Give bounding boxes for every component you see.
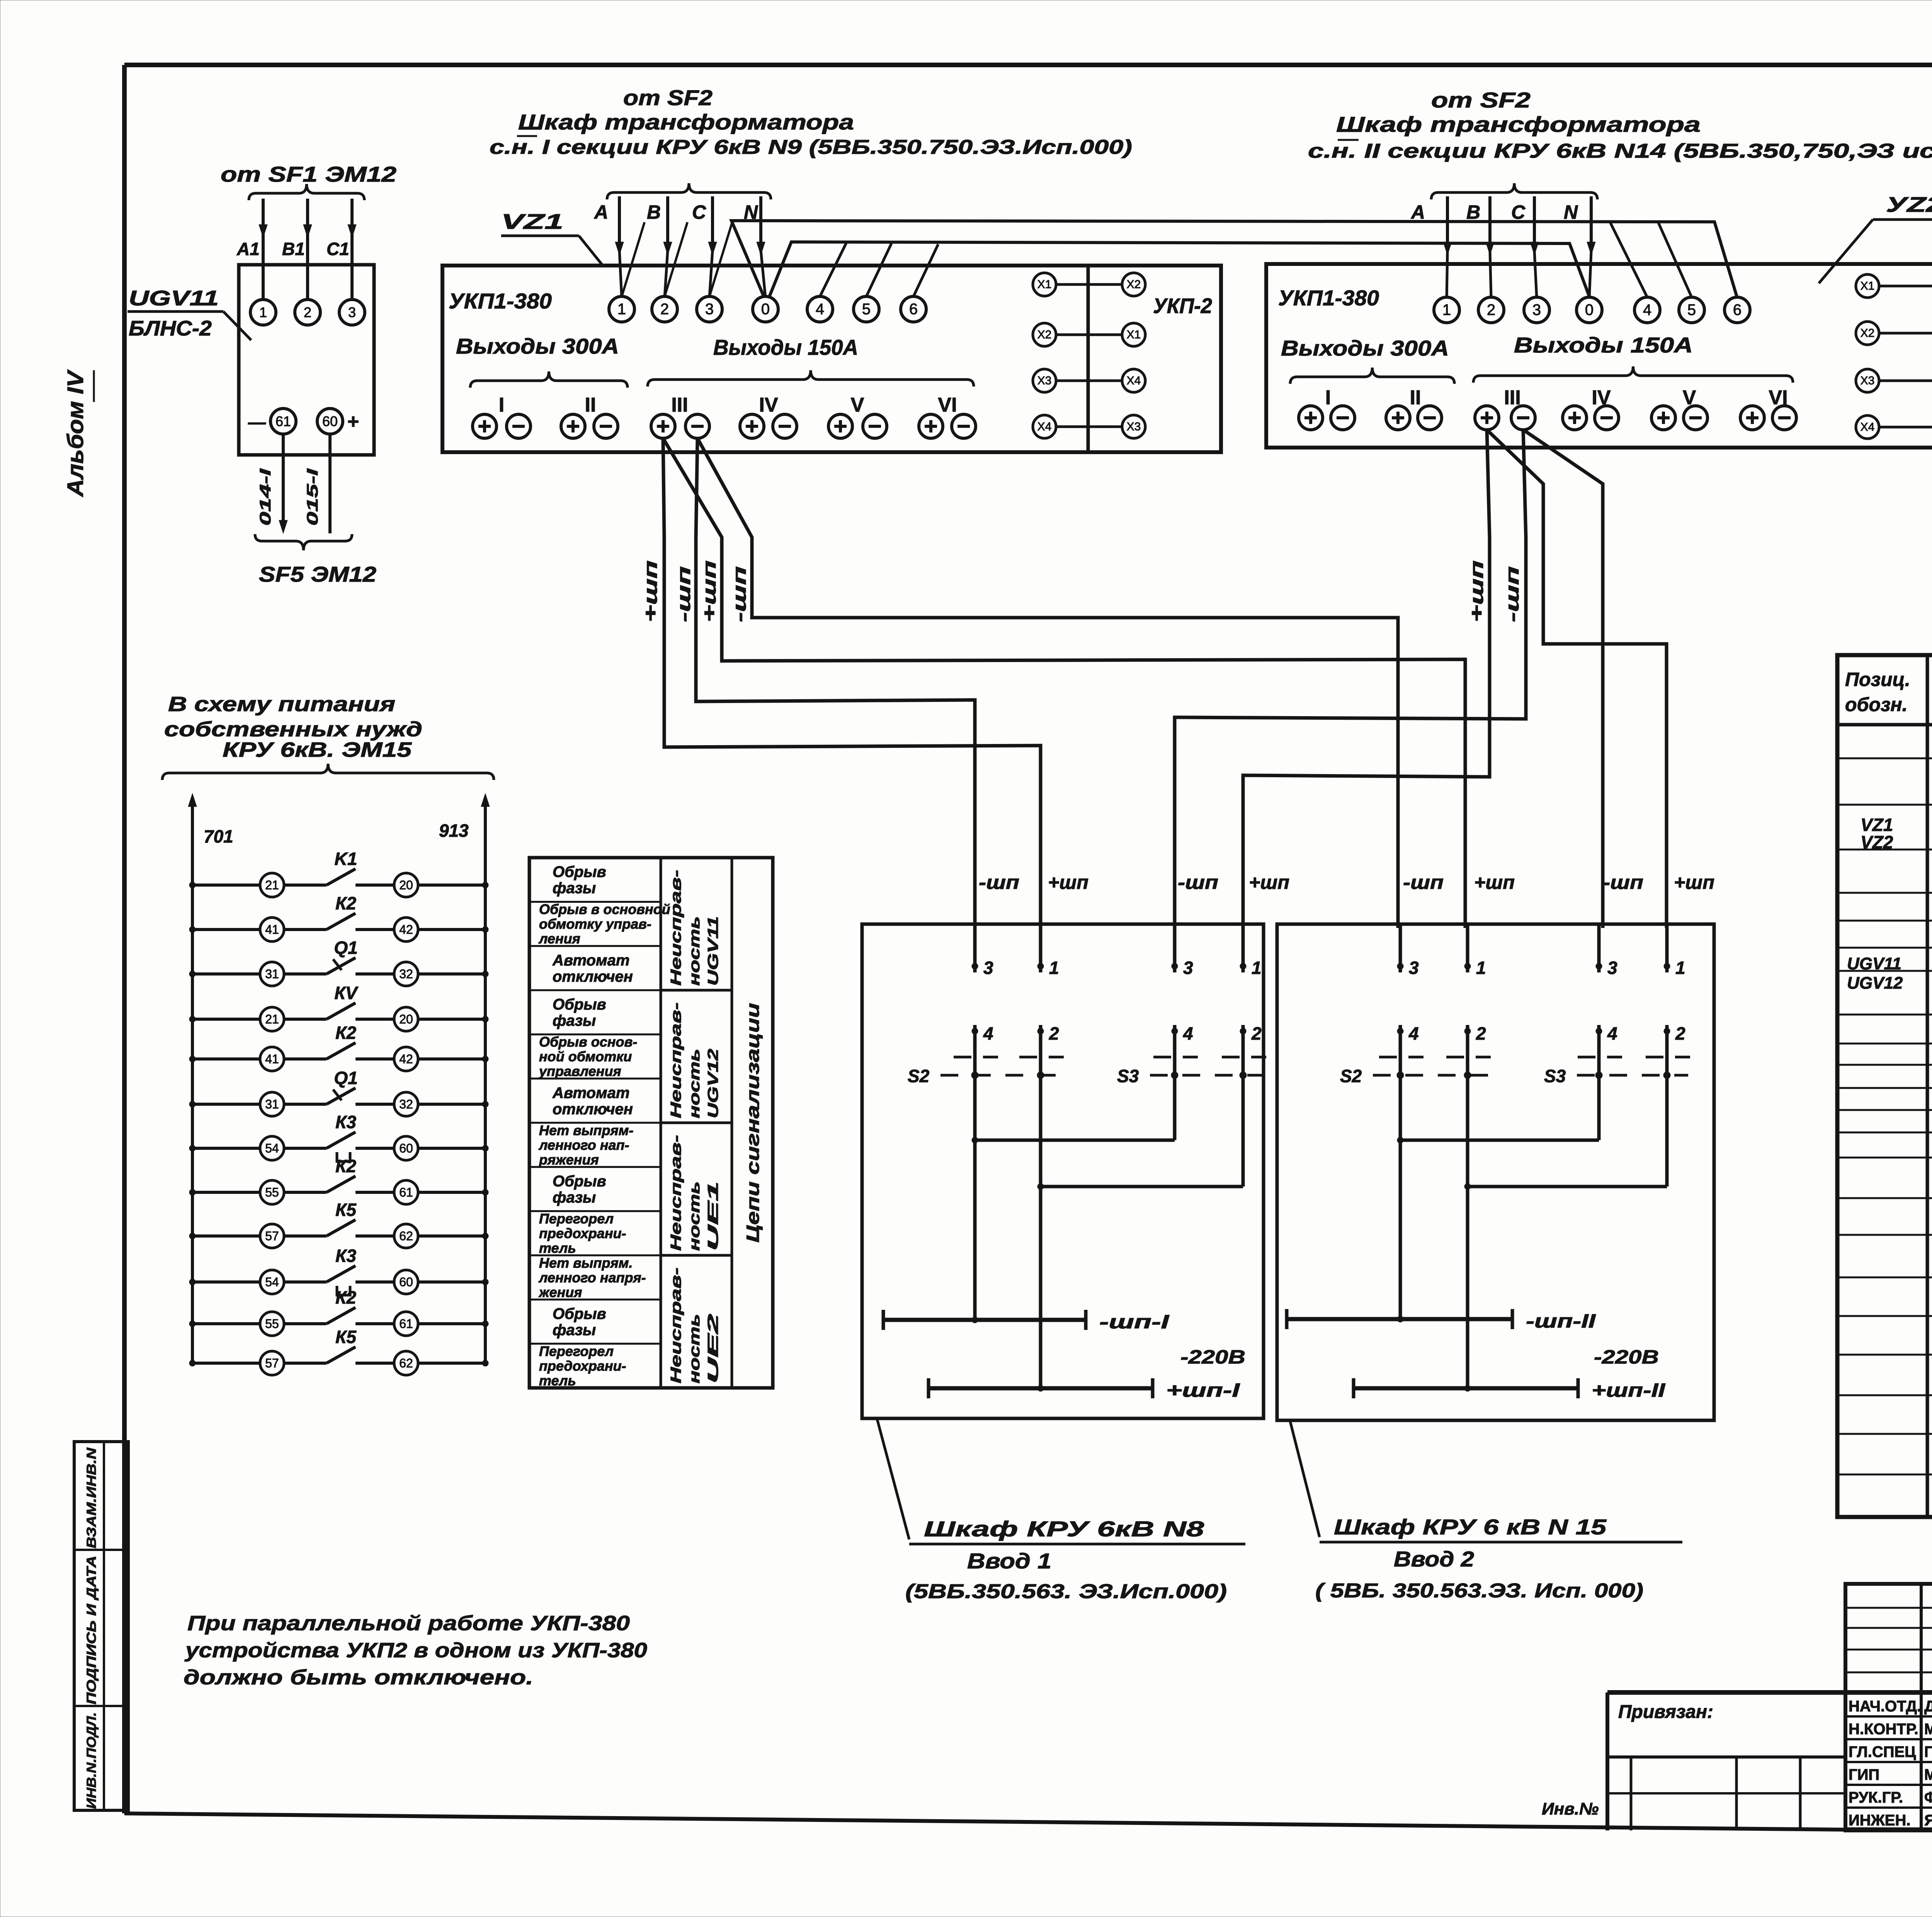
svg-text:4: 4	[1183, 1023, 1193, 1044]
svg-text:Выходы 300А: Выходы 300А	[1281, 336, 1449, 360]
svg-text:5: 5	[1687, 301, 1696, 318]
svg-text:I: I	[499, 394, 504, 416]
svg-text:Нет выпрям-: Нет выпрям-	[539, 1122, 633, 1138]
svg-text:-шп: -шп	[674, 566, 694, 622]
svg-text:61: 61	[399, 1317, 413, 1331]
svg-text:Выходы 300А: Выходы 300А	[456, 334, 619, 358]
svg-text:КV: КV	[335, 983, 359, 1003]
svg-text:ность: ность	[687, 916, 703, 986]
svg-text:Обрыв: Обрыв	[553, 996, 606, 1013]
svg-text:МОСЕЕНКО: МОСЕЕНКО	[1924, 1766, 1932, 1783]
svg-text:X4: X4	[1127, 375, 1141, 387]
svg-text:Обрыв: Обрыв	[553, 863, 606, 880]
svg-text:Н.КОНТР.: Н.КОНТР.	[1849, 1721, 1918, 1738]
svg-text:Ввод 2: Ввод 2	[1394, 1547, 1474, 1571]
svg-text:42: 42	[399, 923, 413, 936]
svg-text:( 5ВБ. 350.563.ЭЗ. Исп. 000): ( 5ВБ. 350.563.ЭЗ. Исп. 000)	[1315, 1580, 1643, 1602]
svg-text:60: 60	[322, 414, 338, 429]
svg-text:6: 6	[1733, 301, 1742, 318]
svg-text:управления: управления	[538, 1063, 621, 1079]
svg-text:ной обмотки: ной обмотки	[539, 1049, 632, 1064]
svg-text:Выходы 150А: Выходы 150А	[1514, 333, 1693, 357]
svg-text:должно быть отключено.: должно быть отключено.	[184, 1666, 533, 1689]
svg-text:X3: X3	[1037, 375, 1052, 387]
svg-text:015-I: 015-I	[304, 468, 321, 526]
svg-text:2: 2	[1476, 1023, 1486, 1044]
svg-text:К2: К2	[335, 1156, 356, 1176]
svg-text:+шп: +шп	[1674, 872, 1714, 893]
svg-text:Позиц.: Позиц.	[1845, 669, 1910, 690]
svg-text:N: N	[1564, 201, 1578, 223]
svg-text:55: 55	[265, 1317, 279, 1331]
svg-text:Обрыв: Обрыв	[553, 1306, 606, 1323]
svg-text:А1: А1	[236, 239, 260, 259]
svg-text:+шп-II: +шп-II	[1592, 1379, 1665, 1401]
svg-text:ПОДПИСЬ И ДАТА: ПОДПИСЬ И ДАТА	[84, 1556, 99, 1704]
svg-text:Автомат: Автомат	[552, 952, 629, 969]
svg-text:I: I	[1325, 386, 1331, 409]
svg-text:-шп: -шп	[730, 566, 750, 622]
svg-text:55: 55	[265, 1185, 279, 1199]
svg-text:3: 3	[1607, 958, 1617, 978]
svg-text:(5ВБ.350.563. ЭЗ.Исп.000): (5ВБ.350.563. ЭЗ.Исп.000)	[905, 1580, 1227, 1603]
svg-text:1: 1	[1049, 958, 1059, 978]
svg-text:фазы: фазы	[553, 1322, 596, 1339]
svg-text:3: 3	[983, 958, 993, 978]
svg-text:ность: ность	[687, 1049, 703, 1119]
svg-text:Цепи сигнализации: Цепи сигнализации	[743, 1003, 763, 1243]
svg-text:+шп-I: +шп-I	[1166, 1379, 1240, 1401]
svg-text:62: 62	[399, 1229, 413, 1243]
svg-text:С1: С1	[327, 239, 349, 259]
svg-text:X3: X3	[1127, 421, 1141, 433]
svg-text:с.н. II секции КРУ 6кВ N14 (5В: с.н. II секции КРУ 6кВ N14 (5ВБ.350,750,…	[1308, 140, 1932, 162]
svg-text:Q1: Q1	[334, 1068, 357, 1088]
svg-text:VI: VI	[938, 394, 957, 416]
svg-text:II: II	[1410, 386, 1421, 409]
svg-text:А: А	[594, 201, 608, 223]
svg-text:-шп: -шп	[1178, 872, 1218, 893]
svg-text:UGV11: UGV11	[1847, 954, 1901, 973]
svg-text:2: 2	[1049, 1023, 1059, 1044]
svg-text:42: 42	[399, 1052, 413, 1066]
svg-text:4: 4	[1643, 301, 1651, 318]
svg-text:014-I: 014-I	[257, 468, 274, 526]
svg-text:отключен: отключен	[553, 1101, 633, 1118]
svg-text:UЕ1: UЕ1	[705, 1182, 721, 1251]
svg-text:УКП1-380: УКП1-380	[449, 289, 552, 313]
svg-text:В1: В1	[282, 239, 305, 259]
svg-text:УZ2: УZ2	[1886, 192, 1932, 216]
svg-text:32: 32	[399, 1097, 413, 1111]
svg-text:ленного нап-: ленного нап-	[538, 1137, 629, 1153]
svg-text:+шп: +шп	[641, 560, 661, 622]
svg-text:—: —	[248, 412, 266, 432]
svg-text:4: 4	[816, 301, 824, 318]
svg-text:701: 701	[204, 826, 233, 846]
svg-text:К2: К2	[335, 1287, 356, 1308]
svg-text:ВЗАМ.ИНВ.N: ВЗАМ.ИНВ.N	[84, 1447, 99, 1548]
svg-text:от SF1 ЭМ12: от SF1 ЭМ12	[221, 162, 396, 186]
svg-text:НАЧ.ОТД.: НАЧ.ОТД.	[1849, 1698, 1921, 1715]
svg-text:VZ2: VZ2	[1861, 832, 1893, 852]
svg-text:60: 60	[399, 1275, 413, 1289]
svg-text:фазы: фазы	[553, 1012, 596, 1029]
svg-text:УКП-2: УКП-2	[1153, 294, 1212, 318]
svg-text:+шп: +шп	[1048, 872, 1088, 893]
svg-text:913: 913	[439, 821, 469, 841]
svg-text:5: 5	[862, 301, 871, 318]
svg-text:X2: X2	[1127, 278, 1141, 291]
svg-text:Неисправ-: Неисправ-	[668, 1003, 684, 1119]
svg-text:Перегорел: Перегорел	[539, 1210, 614, 1226]
svg-text:К3: К3	[335, 1112, 356, 1132]
svg-text:-шп: -шп	[1502, 566, 1523, 622]
svg-text:жения: жения	[538, 1284, 582, 1300]
svg-text:31: 31	[265, 1097, 279, 1111]
svg-text:III: III	[671, 394, 688, 416]
svg-text:2: 2	[1675, 1023, 1685, 1044]
svg-text:от SF2: от SF2	[1431, 88, 1531, 112]
svg-text:UGV11: UGV11	[129, 286, 219, 310]
svg-text:UGV12: UGV12	[705, 1049, 721, 1119]
svg-text:Нет выпрям.: Нет выпрям.	[539, 1255, 633, 1271]
svg-text:-шп: -шп	[1403, 872, 1444, 893]
svg-text:ления: ления	[538, 931, 580, 947]
svg-text:тель: тель	[539, 1372, 576, 1388]
svg-text:31: 31	[265, 967, 279, 981]
svg-text:Q1: Q1	[334, 938, 357, 958]
svg-text:ленного напря-: ленного напря-	[538, 1270, 646, 1285]
svg-text:54: 54	[265, 1275, 279, 1289]
svg-text:Обрыв: Обрыв	[553, 1173, 606, 1190]
svg-text:S3: S3	[1544, 1066, 1566, 1086]
svg-text:тель: тель	[539, 1240, 576, 1256]
svg-text:20: 20	[399, 1012, 413, 1026]
svg-text:Шкаф трансформатора: Шкаф трансформатора	[1336, 112, 1701, 136]
svg-text:1: 1	[259, 305, 267, 320]
svg-text:от SF2: от SF2	[623, 85, 713, 110]
svg-text:+: +	[347, 410, 359, 433]
svg-text:41: 41	[265, 923, 279, 936]
svg-text:ряжения: ряжения	[539, 1152, 599, 1168]
svg-text:3: 3	[1409, 958, 1419, 978]
svg-text:UGV12: UGV12	[1847, 974, 1903, 993]
svg-text:VZ1: VZ1	[501, 209, 563, 233]
svg-text:Неисправ-: Неисправ-	[668, 870, 684, 986]
svg-text:0: 0	[1585, 301, 1594, 318]
svg-text:21: 21	[265, 878, 279, 892]
svg-text:+шп: +шп	[1467, 560, 1487, 622]
svg-text:В: В	[1466, 201, 1480, 223]
svg-text:X1: X1	[1127, 329, 1141, 341]
svg-text:X3: X3	[1861, 375, 1875, 387]
svg-text:57: 57	[265, 1229, 279, 1243]
svg-text:1: 1	[1675, 958, 1685, 978]
svg-text:С: С	[692, 201, 706, 223]
svg-text:ность: ность	[687, 1182, 703, 1251]
svg-text:С: С	[1511, 201, 1526, 223]
svg-text:V: V	[851, 394, 864, 416]
svg-text:2: 2	[1251, 1023, 1262, 1044]
svg-text:+шп: +шп	[699, 560, 720, 622]
svg-text:Шкаф трансформатора: Шкаф трансформатора	[518, 110, 854, 134]
svg-text:1: 1	[617, 301, 626, 318]
svg-text:+шп: +шп	[1249, 872, 1289, 893]
svg-text:20: 20	[399, 878, 413, 892]
svg-text:61: 61	[276, 414, 291, 429]
svg-text:62: 62	[399, 1356, 413, 1370]
svg-text:-шп-I: -шп-I	[1099, 1311, 1170, 1333]
svg-text:4: 4	[1607, 1023, 1617, 1044]
svg-text:60: 60	[399, 1141, 413, 1155]
svg-text:ГОЛЬДМАН: ГОЛЬДМАН	[1924, 1743, 1932, 1760]
svg-text:В схему питания: В схему питания	[168, 693, 395, 716]
svg-text:1: 1	[1442, 301, 1451, 318]
svg-text:К5: К5	[335, 1327, 357, 1347]
svg-text:S2: S2	[1340, 1066, 1362, 1086]
svg-text:2: 2	[304, 305, 311, 320]
svg-text:Альбом IV: Альбом IV	[63, 369, 88, 497]
svg-text:фазы: фазы	[553, 880, 596, 897]
svg-text:МОСЕЕНКО: МОСЕЕНКО	[1924, 1721, 1932, 1738]
svg-text:Неисправ-: Неисправ-	[668, 1135, 684, 1251]
svg-text:3: 3	[705, 301, 714, 318]
svg-text:0: 0	[761, 301, 770, 318]
svg-text:54: 54	[265, 1141, 279, 1155]
svg-text:3: 3	[1183, 958, 1193, 978]
svg-text:3: 3	[1532, 301, 1541, 318]
svg-text:ИНВ.N.ПОДЛ.: ИНВ.N.ПОДЛ.	[84, 1712, 99, 1809]
svg-text:устройства УКП2 в одном из УК: устройства УКП2 в одном из УКП-380	[184, 1639, 647, 1662]
svg-text:КРУ 6кВ. ЭМ15: КРУ 6кВ. ЭМ15	[223, 738, 412, 761]
svg-text:UЕ2: UЕ2	[705, 1314, 721, 1384]
svg-text:обмотку управ-: обмотку управ-	[539, 916, 651, 932]
svg-text:1: 1	[1252, 958, 1262, 978]
svg-text:SF5 ЭМ12: SF5 ЭМ12	[259, 562, 376, 586]
svg-text:фазы: фазы	[553, 1189, 596, 1206]
svg-text:предохрани-: предохрани-	[539, 1225, 626, 1241]
svg-text:А: А	[1410, 201, 1425, 223]
svg-text:-шп: -шп	[1603, 872, 1643, 893]
svg-text:-220В: -220В	[1594, 1346, 1659, 1368]
svg-text:61: 61	[399, 1185, 413, 1199]
svg-text:X2: X2	[1861, 327, 1875, 340]
svg-text:IV: IV	[759, 394, 778, 416]
svg-text:Автомат: Автомат	[552, 1084, 629, 1102]
svg-text:отключен: отключен	[553, 968, 633, 985]
svg-text:При параллельной работе УКП-38: При параллельной работе УКП-380	[187, 1612, 630, 1635]
svg-text:S3: S3	[1117, 1066, 1139, 1086]
svg-text:Выходы 150А: Выходы 150А	[713, 335, 858, 359]
svg-text:4: 4	[983, 1023, 993, 1044]
svg-text:Привязан:: Привязан:	[1618, 1702, 1713, 1722]
svg-text:X1: X1	[1861, 280, 1875, 293]
svg-text:УКП1-380: УКП1-380	[1278, 286, 1379, 310]
svg-text:ФЕДОРОВА: ФЕДОРОВА	[1924, 1789, 1932, 1806]
svg-text:X4: X4	[1037, 421, 1052, 433]
svg-text:обозн.: обозн.	[1845, 694, 1908, 715]
svg-text:21: 21	[265, 1012, 279, 1026]
svg-text:К3: К3	[335, 1246, 356, 1266]
svg-text:ЯНЧЕНКО: ЯНЧЕНКО	[1924, 1812, 1932, 1829]
svg-text:II: II	[585, 394, 596, 416]
svg-text:Инв.№: Инв.№	[1542, 1800, 1599, 1818]
svg-text:Перегорел: Перегорел	[539, 1343, 614, 1359]
svg-text:Ввод 1: Ввод 1	[967, 1549, 1051, 1573]
svg-text:собственных нужд: собственных нужд	[164, 718, 422, 741]
svg-text:6: 6	[909, 301, 918, 318]
svg-text:БЛНС-2: БЛНС-2	[129, 316, 212, 340]
svg-text:X4: X4	[1861, 421, 1875, 434]
svg-text:ДАНИЛОВ: ДАНИЛОВ	[1924, 1698, 1932, 1715]
svg-text:-шп: -шп	[979, 872, 1019, 893]
svg-text:-шп-II: -шп-II	[1526, 1310, 1596, 1332]
svg-text:ГЛ.СПЕЦ: ГЛ.СПЕЦ	[1849, 1743, 1916, 1760]
svg-text:4: 4	[1408, 1023, 1419, 1044]
svg-text:с.н. I секции КРУ 6кВ N9 (5ВБ.: с.н. I секции КРУ 6кВ N9 (5ВБ.350.750.ЭЗ…	[490, 136, 1132, 158]
svg-text:41: 41	[265, 1052, 279, 1066]
svg-text:Шкаф КРУ 6кВ N8: Шкаф КРУ 6кВ N8	[924, 1517, 1204, 1541]
svg-text:X2: X2	[1037, 329, 1052, 341]
svg-text:В: В	[647, 201, 661, 223]
svg-text:32: 32	[399, 967, 413, 981]
svg-text:предохрани-: предохрани-	[539, 1358, 626, 1374]
svg-text:UGV11: UGV11	[705, 916, 721, 986]
svg-text:ность: ность	[687, 1314, 703, 1384]
svg-text:2: 2	[1487, 301, 1495, 318]
svg-text:Обрыв основ-: Обрыв основ-	[539, 1034, 637, 1050]
svg-text:РУК.ГР.: РУК.ГР.	[1849, 1789, 1903, 1806]
svg-text:ИНЖЕН.: ИНЖЕН.	[1849, 1812, 1910, 1829]
svg-text:Неисправ-: Неисправ-	[668, 1268, 684, 1384]
svg-text:Шкаф КРУ 6 кВ N 15: Шкаф КРУ 6 кВ N 15	[1334, 1515, 1607, 1539]
svg-text:-220В: -220В	[1180, 1346, 1245, 1368]
svg-text:57: 57	[265, 1356, 279, 1370]
svg-text:Обрыв в основной: Обрыв в основной	[539, 901, 670, 917]
svg-text:1: 1	[1476, 958, 1486, 978]
svg-text:+шп: +шп	[1474, 872, 1515, 893]
svg-text:К2: К2	[335, 1023, 356, 1043]
svg-text:K1: K1	[335, 849, 357, 869]
svg-text:ГИП: ГИП	[1849, 1766, 1879, 1783]
svg-text:К2: К2	[335, 893, 356, 913]
svg-text:S2: S2	[908, 1066, 930, 1086]
svg-text:К5: К5	[335, 1200, 357, 1220]
svg-text:2: 2	[660, 301, 669, 318]
svg-text:3: 3	[348, 305, 356, 320]
svg-text:X1: X1	[1037, 278, 1052, 291]
